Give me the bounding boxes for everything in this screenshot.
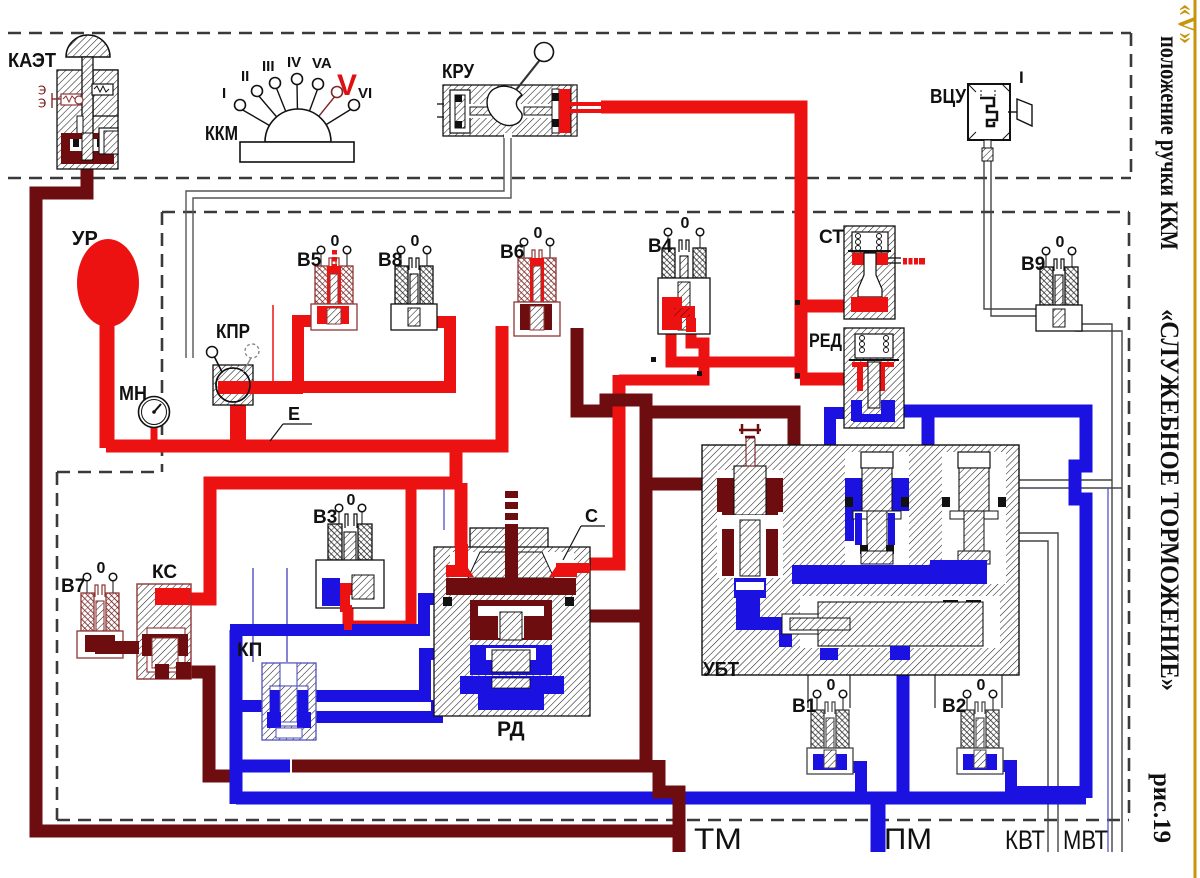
gauge MN <box>139 397 170 428</box>
svg-text:РЕД: РЕД <box>809 331 842 352</box>
svg-text:VI: VI <box>358 85 372 102</box>
wire: thin red line near KPR <box>272 305 274 383</box>
svg-text:В5: В5 <box>297 250 322 271</box>
svg-text:В3: В3 <box>313 507 337 528</box>
svg-text:II: II <box>241 68 249 85</box>
svg-text:МН: МН <box>119 383 147 405</box>
wire: V3 to KP thin blue box <box>252 568 254 662</box>
left piston maroon surround <box>717 478 734 512</box>
wire: PM drop stub <box>871 798 886 852</box>
svg-text:РД: РД <box>497 718 525 741</box>
reservoir UR <box>77 239 139 327</box>
wire: KP main vertical <box>230 630 243 760</box>
valve В8 <box>391 252 437 330</box>
valve CT <box>844 226 901 319</box>
wire: RED reducer left outlet down into UBT <box>830 413 862 535</box>
svg-text:0: 0 <box>534 225 543 242</box>
valve V3 <box>316 510 384 630</box>
svg-text:В2: В2 <box>942 696 966 717</box>
wire: branch to RED reducer <box>800 373 846 386</box>
wire: drop into UBT middle piston <box>922 411 935 488</box>
svg-text:0: 0 <box>347 492 356 509</box>
svg-text:КРУ: КРУ <box>442 61 474 83</box>
wire: RD left feed <box>455 483 468 560</box>
wire: V6 right port, bridge over C line, down to lower header <box>292 328 646 766</box>
svg-text:℈: ℈ <box>38 82 46 96</box>
svg-text:СТ: СТ <box>819 227 844 248</box>
svg-text:В7: В7 <box>61 576 85 597</box>
valve В2 <box>957 696 1003 774</box>
svg-text:V: V <box>337 69 357 102</box>
valve В5 <box>311 252 357 330</box>
wire: V4 right port to C line <box>619 326 704 380</box>
wire: y483 header to KC <box>158 483 456 599</box>
svg-text:0: 0 <box>331 233 340 250</box>
wire: UBT bottom feeds to V1 V2 <box>807 675 809 708</box>
wire: branch into UBT left piston <box>646 478 720 491</box>
svg-text:В8: В8 <box>378 250 402 271</box>
svg-text:0: 0 <box>411 233 420 250</box>
wire: UBT right to KVT thin pipe <box>1019 533 1058 852</box>
valve В6 <box>514 244 560 336</box>
svg-text:В9: В9 <box>1021 254 1045 275</box>
valve В1 <box>807 696 853 774</box>
junction marks <box>651 357 656 362</box>
wire: V9 to MVT thin pipe <box>1075 324 1112 852</box>
svg-text:I: I <box>1019 68 1024 87</box>
wire: manifold drop to y483 header <box>450 446 463 483</box>
svg-text:КПР: КПР <box>216 321 250 343</box>
svg-text:КВТ: КВТ <box>1005 825 1045 855</box>
valve KRU brake crane <box>437 43 577 139</box>
svg-text:IV: IV <box>287 54 301 71</box>
valve KPR <box>207 344 304 405</box>
svg-text:0: 0 <box>681 215 690 232</box>
svg-text:В6: В6 <box>500 242 524 263</box>
svg-text:0: 0 <box>97 560 106 577</box>
wire: KP junction vertical <box>230 758 243 804</box>
valve RD brake relay <box>434 491 590 716</box>
wire: V2 bottom to right vertical <box>977 766 1086 792</box>
wire: KC outlet down to junction <box>185 672 234 776</box>
wire: PM main line <box>236 792 1086 805</box>
svg-text:VA: VA <box>312 55 332 72</box>
svg-text:℈: ℈ <box>38 95 46 109</box>
svg-text:ВЦУ: ВЦУ <box>930 86 966 108</box>
dashed border: main box <box>162 211 1129 214</box>
wire: KRU red output to CT/RED junction <box>601 107 801 379</box>
wire: V1 bottom to PM <box>828 767 861 798</box>
svg-text:В4: В4 <box>648 236 673 257</box>
wire: UBT right ports to MVT pipe <box>1019 479 1112 481</box>
wire: C line down to RD right port <box>575 375 619 564</box>
svg-text:КАЭТ: КАЭТ <box>8 50 56 72</box>
wire: RED right outlet loop to right side vertical <box>903 411 1086 798</box>
wire: KP second right port <box>316 700 437 717</box>
wire: KP left port <box>236 700 262 712</box>
valve VCU <box>968 84 1032 161</box>
svg-text:0: 0 <box>1056 234 1065 251</box>
valve KAET <box>38 35 118 169</box>
wire: KRU control line to KPR <box>186 133 504 358</box>
svg-text:0: 0 <box>977 677 986 694</box>
wire: branch to CT <box>800 300 849 313</box>
svg-text:УБТ: УБТ <box>703 659 739 681</box>
svg-text:положение ручки ККМ: положение ручки ККМ <box>1155 36 1182 250</box>
KKM hand-lever positions fan <box>240 84 354 162</box>
svg-text:С: С <box>585 506 598 526</box>
valve V4 red internals <box>662 297 682 330</box>
wire: blue header to RD upper-left port <box>230 599 437 630</box>
valve RED pressure reducer <box>844 328 904 428</box>
wire: V6 left port down to main manifold E <box>106 326 502 446</box>
svg-text:КП: КП <box>237 640 262 661</box>
wire: UR stem <box>100 318 115 448</box>
svg-text:I: I <box>222 85 226 102</box>
valve KP <box>262 663 316 740</box>
svg-text:рис.19: рис.19 <box>1148 773 1175 843</box>
svg-text:ККМ: ККМ <box>205 123 238 145</box>
wire: KAET down left side and bottom TM main <box>36 158 683 831</box>
dashed border: top strip box <box>8 32 1131 35</box>
svg-text:ПМ: ПМ <box>884 823 932 856</box>
svg-text:0: 0 <box>827 677 836 694</box>
unit UBT brake accelerator <box>702 424 1019 675</box>
valve KC <box>95 584 191 679</box>
svg-text:КС: КС <box>152 562 177 583</box>
svg-text:«СЛУЖЕБНОЕ ТОРМОЖЕНИЕ»: «СЛУЖЕБНОЕ ТОРМОЖЕНИЕ» <box>1155 309 1184 691</box>
wire: V3 loop from header <box>348 483 411 626</box>
red thin connector from KRU <box>570 102 601 106</box>
svg-text:УР: УР <box>72 228 98 250</box>
svg-text:ТМ: ТМ <box>694 823 742 856</box>
wire: VCU line down to V9 <box>984 160 1040 309</box>
valve В4 <box>658 234 710 334</box>
wire: KPR to V5 and V8 loop <box>244 322 450 387</box>
wire: UBT bottom outlet down to PM <box>897 648 910 798</box>
wire: MN stem <box>151 424 158 442</box>
valve В7 <box>77 579 123 658</box>
wire: junction blue segment of lower header <box>231 760 290 773</box>
valve В9 <box>1036 253 1082 331</box>
svg-text:Е: Е <box>288 404 300 424</box>
wire: TM drop with jog over PM <box>659 760 679 852</box>
wire: KPR stem to manifold <box>230 398 246 444</box>
wire: thin blue line beside RD feed <box>443 486 445 530</box>
wire: RD maroon outlet to vertical <box>553 610 646 623</box>
svg-text:III: III <box>262 58 275 75</box>
wire: RD mid-left port to KP <box>316 654 437 696</box>
sidebar gold line <box>1194 0 1197 878</box>
svg-text:МВТ: МВТ <box>1063 825 1108 855</box>
wire: UBT maroon frame from vertical <box>646 412 794 560</box>
svg-text:В1: В1 <box>792 696 817 717</box>
wire: V4 left port down to junction <box>671 326 801 362</box>
